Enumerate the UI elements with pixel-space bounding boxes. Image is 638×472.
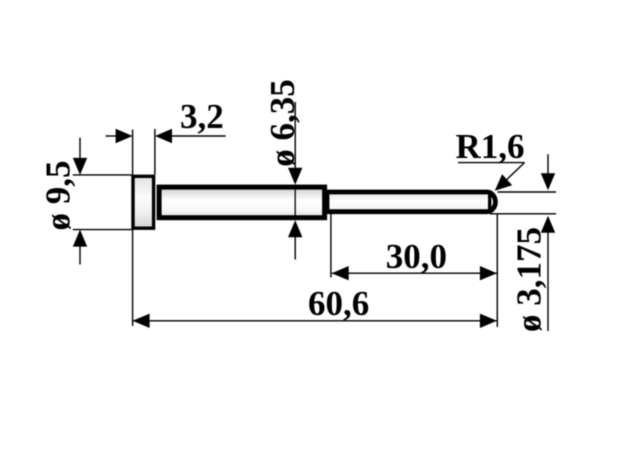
svg-text:30,0: 30,0 (386, 237, 447, 276)
dimension ø3,175 label (rotated) (509, 227, 548, 332)
dimension 3,2 extension line right (154, 129, 156, 175)
dimension 3,2 label (180, 97, 224, 136)
dimension 30,0 extension line left (330, 214, 332, 278)
radius R1,6 leader with arrow (458, 163, 525, 191)
svg-text:ø 9,5: ø 9,5 (39, 161, 78, 231)
svg-text:3,2: 3,2 (180, 97, 224, 136)
dimension ø9,5 dimension line and arrows (73, 138, 87, 265)
dimension ø9,5 label (rotated) (39, 161, 78, 231)
pin shaft ø3,175 with spherical tip (327, 191, 495, 214)
head cylinder ø9,5 (133, 176, 154, 228)
dimension 60,6 label (308, 284, 369, 323)
dimension 30,0 dimension line and arrows (332, 266, 497, 280)
dimension ø6,35 dimension line and arrows (288, 102, 302, 260)
body cylinder ø6,35 (159, 187, 325, 218)
svg-text:R1,6: R1,6 (456, 127, 525, 166)
radius R1,6 label (456, 127, 525, 166)
dimension 30,0 label (386, 237, 447, 276)
dimension ø6,35 label (rotated) (263, 79, 302, 167)
shared right extension line (30,0 and 60,6) (496, 214, 498, 327)
svg-text:60,6: 60,6 (308, 284, 369, 323)
dimension 3,2 extension line left (also 60,6 left extension) (132, 130, 134, 327)
dimension 60,6 dimension line and arrows (133, 314, 497, 328)
dimension ø3,175 extension lines (490, 192, 556, 214)
svg-text:ø 3,175: ø 3,175 (509, 227, 548, 332)
svg-text:ø 6,35: ø 6,35 (263, 79, 302, 167)
dimension ø9,5 extension lines (73, 175, 132, 230)
dimension 3,2 dimension line and arrows (106, 129, 226, 143)
dimension ø3,175 dimension line and arrows (541, 154, 555, 331)
